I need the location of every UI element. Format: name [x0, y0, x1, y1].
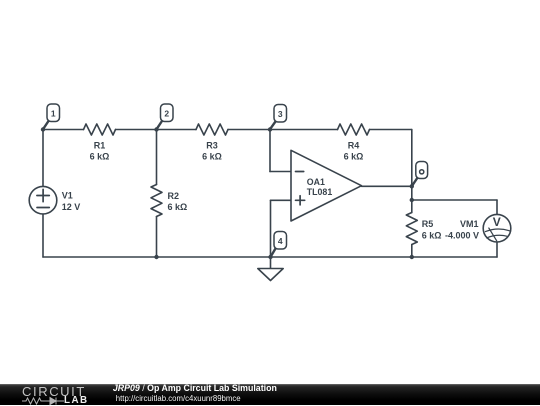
- wire R2 to bottom rail: [156, 217, 158, 258]
- op-amp inverting pin symbol: [296, 171, 304, 173]
- node 1 junction dot: [41, 127, 45, 131]
- wire R4 to top-right corner: [370, 129, 412, 131]
- svg-text:R2: R2: [168, 191, 180, 201]
- wire node down to R5: [411, 200, 413, 213]
- wire bottom rail middle: [157, 256, 271, 258]
- op-amp OA1: [291, 150, 362, 221]
- wire R5 to bottom rail: [411, 245, 413, 258]
- resistor R3: [196, 124, 228, 135]
- svg-text:-4.000 V: -4.000 V: [445, 230, 479, 240]
- svg-text:2: 2: [164, 108, 169, 118]
- svg-text:6 kΩ: 6 kΩ: [422, 230, 442, 240]
- svg-text:VM1: VM1: [460, 219, 479, 229]
- svg-text:R4: R4: [348, 140, 360, 150]
- op-amp non-inverting pin symbol: [296, 196, 305, 205]
- circuitlab logo resistor-diode glyph: [22, 396, 68, 406]
- voltmeter VM1 body: [483, 214, 511, 242]
- resistor R1: [84, 124, 116, 135]
- wire voltmeter bottom lead: [496, 242, 498, 257]
- wire V1 to bottom rail: [42, 214, 44, 257]
- node 2 junction dot: [154, 127, 158, 131]
- resistor R5: [406, 213, 417, 245]
- node flag 1: [43, 104, 59, 129]
- node flag 2: [157, 104, 173, 129]
- resistor R2: [151, 185, 162, 217]
- R2 bottom junction dot: [154, 255, 158, 259]
- R5 bottom junction dot: [410, 255, 414, 259]
- footer bar: [0, 384, 540, 406]
- svg-text:TL081: TL081: [307, 187, 333, 197]
- svg-text:OA1: OA1: [307, 177, 325, 187]
- wire node2 to R3: [157, 129, 197, 131]
- wire non-inverting input down to ground node: [270, 200, 272, 257]
- wire node3 to R4: [270, 129, 338, 131]
- svg-text:R3: R3: [206, 140, 218, 150]
- voltage source V1: [29, 186, 57, 214]
- node o junction dot: [410, 184, 414, 188]
- wire R1 to node2: [116, 129, 157, 131]
- wire bottom rail right: [271, 256, 412, 258]
- resistor R4: [338, 124, 370, 135]
- node flag o: [412, 162, 427, 186]
- svg-text:1: 1: [51, 108, 56, 118]
- svg-text:6 kΩ: 6 kΩ: [90, 152, 110, 162]
- wire node2 down to R2: [156, 130, 158, 185]
- footer url line: [116, 394, 241, 403]
- wire node1 to R1: [43, 129, 84, 131]
- wire node o down: [411, 186, 413, 200]
- node 3 junction dot: [268, 127, 272, 131]
- wire node3 down: [269, 130, 271, 172]
- wire right feedback vertical: [411, 130, 413, 187]
- svg-text:4: 4: [278, 236, 283, 246]
- ground stub: [270, 257, 272, 269]
- wire node1 down to V1: [42, 130, 44, 187]
- svg-text:6 kΩ: 6 kΩ: [344, 152, 364, 162]
- voltmeter meter arc lower: [487, 235, 508, 238]
- wire to voltmeter VM1: [412, 199, 497, 201]
- circuitlab logo LAB: [64, 395, 89, 406]
- V1 minus symbol: [37, 207, 49, 209]
- voltmeter meter arc upper: [485, 229, 510, 232]
- svg-text:6 kΩ: 6 kΩ: [168, 202, 188, 212]
- wire to inverting input: [270, 171, 291, 173]
- svg-text:R5: R5: [422, 219, 434, 229]
- svg-text:6 kΩ: 6 kΩ: [202, 152, 222, 162]
- svg-text:V: V: [493, 215, 501, 229]
- wire voltmeter top lead: [496, 200, 498, 214]
- svg-text:V1: V1: [62, 191, 73, 201]
- wire op-amp output: [362, 185, 412, 187]
- V1 plus symbol: [37, 189, 49, 201]
- voltmeter needle: [489, 228, 497, 241]
- svg-text:3: 3: [278, 109, 283, 119]
- node flag 4: [271, 232, 287, 257]
- wire bottom rail left: [43, 256, 157, 258]
- wire bottom rail to voltmeter: [412, 256, 497, 258]
- svg-text:R1: R1: [94, 140, 106, 150]
- footer title line: [113, 383, 277, 393]
- node 4 junction dot: [268, 255, 272, 259]
- circuitlab logo CIRCUIT: [22, 384, 86, 399]
- svg-text:12 V: 12 V: [62, 202, 81, 212]
- ground symbol: [258, 269, 283, 281]
- wire R3 to node3: [228, 129, 270, 131]
- output branch junction dot: [410, 198, 414, 202]
- wire to non-inverting input: [271, 199, 292, 201]
- node flag 3: [270, 105, 286, 129]
